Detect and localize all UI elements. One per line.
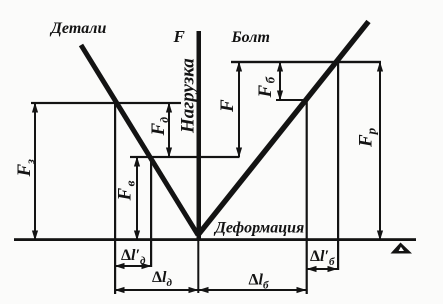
svg-text:Детали: Детали (49, 20, 106, 37)
svg-text:F: F (173, 27, 186, 46)
svg-text:F: F (217, 99, 238, 113)
svg-text:Деформация: Деформация (213, 220, 304, 237)
svg-text:Нагрузка: Нагрузка (178, 58, 199, 134)
svg-text:Болт: Болт (231, 29, 270, 46)
